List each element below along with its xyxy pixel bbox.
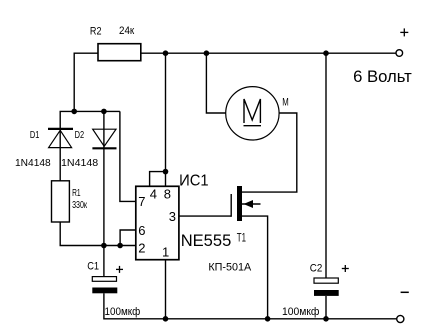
node C1 top junction <box>101 243 107 249</box>
wire C2 bottom lead <box>325 296 327 319</box>
svg-text:100мкф: 100мкф <box>105 306 141 318</box>
svg-text:C1: C1 <box>87 261 99 273</box>
svg-text:7: 7 <box>138 194 145 209</box>
wire source to ground rail <box>242 216 268 319</box>
svg-text:D1: D1 <box>30 129 40 141</box>
svg-text:ИС1: ИС1 <box>179 173 209 190</box>
wire D2 lead through triangle <box>103 111 105 148</box>
svg-text:Т1: Т1 <box>237 233 246 245</box>
svg-text:1: 1 <box>162 245 169 260</box>
wire C2 top lead from rail <box>325 53 327 278</box>
node ground rail pin 1 junction <box>163 316 169 322</box>
diode D2 <box>92 129 116 148</box>
wire R2 left lead down to diode bus <box>74 53 98 111</box>
wire R1 bottom to pin 2 <box>60 222 136 246</box>
svg-text:4: 4 <box>150 186 157 201</box>
node pin 6 to pin 2 junction <box>117 243 123 249</box>
svg-text:М: М <box>282 96 289 108</box>
node Vcc rail to IC junction <box>163 50 169 56</box>
svg-text:2: 2 <box>138 241 145 256</box>
wire pins 4-8 bracket <box>150 172 166 187</box>
node Vcc rail to C2 junction <box>323 50 329 56</box>
wire diode anode bus D1-D2 <box>60 111 120 128</box>
svg-text:R1: R1 <box>72 187 81 199</box>
node R2 to diode bus junction <box>71 109 77 115</box>
polarity plus of C2 <box>342 265 349 272</box>
wire Vcc drop to IC pin 8 <box>165 53 167 186</box>
svg-text:6 Вольт: 6 Вольт <box>353 68 412 86</box>
svg-text:8: 8 <box>164 186 171 201</box>
svg-text:100мкф: 100мкф <box>282 306 319 318</box>
svg-text:3: 3 <box>169 209 176 224</box>
wire pin 6 branch to pin 2 bus <box>120 230 136 246</box>
node pins 4-8 tie junction <box>163 169 169 175</box>
svg-text:6: 6 <box>138 223 145 238</box>
svg-text:C2: C2 <box>310 262 323 274</box>
wire D1 anode to R1 top <box>59 130 61 181</box>
wire C1 top lead <box>103 246 105 277</box>
node ground rail source junction <box>265 316 271 322</box>
IC U1 555 timer box <box>136 186 179 259</box>
svg-text:1N4148: 1N4148 <box>61 157 98 169</box>
label minus polarity of supply <box>401 291 409 293</box>
resistor R1 <box>52 181 70 222</box>
capacitor C2 <box>314 278 339 296</box>
label plus polarity of supply <box>400 28 408 36</box>
wire C1 bottom lead and ground rail <box>104 293 397 319</box>
wire gate electrode <box>230 194 232 217</box>
resistor R2 <box>98 44 141 61</box>
wire D2 cathode down to pin 2 bus <box>103 148 105 245</box>
svg-text:24к: 24к <box>119 25 134 37</box>
diode D1 <box>48 129 73 148</box>
svg-text:D2: D2 <box>75 129 85 141</box>
node ground rail C2 junction <box>323 316 329 322</box>
node D2 anode junction <box>101 109 107 115</box>
wire positive supply top rail <box>141 52 396 54</box>
wire pin 3 to gate <box>179 215 231 217</box>
wire pin 1 to ground rail <box>165 260 167 319</box>
wire diode bus to pin 7 <box>120 111 136 201</box>
node Vcc rail to motor junction <box>204 50 210 56</box>
svg-text:NE555: NE555 <box>181 231 232 250</box>
wire motor right lead to drain <box>242 113 297 192</box>
wire motor left lead <box>206 53 225 113</box>
svg-text:330к: 330к <box>72 199 87 211</box>
svg-text:1N4148: 1N4148 <box>15 157 51 169</box>
motor M <box>226 87 279 140</box>
node negative supply terminal <box>397 315 404 322</box>
node positive supply terminal <box>396 50 403 57</box>
svg-text:R2: R2 <box>90 25 102 37</box>
capacitor C1 <box>92 277 117 294</box>
svg-text:КП-501А: КП-501А <box>208 261 251 273</box>
transistor T1 n-channel MOSFET <box>237 186 261 221</box>
polarity plus of C1 <box>116 266 123 273</box>
